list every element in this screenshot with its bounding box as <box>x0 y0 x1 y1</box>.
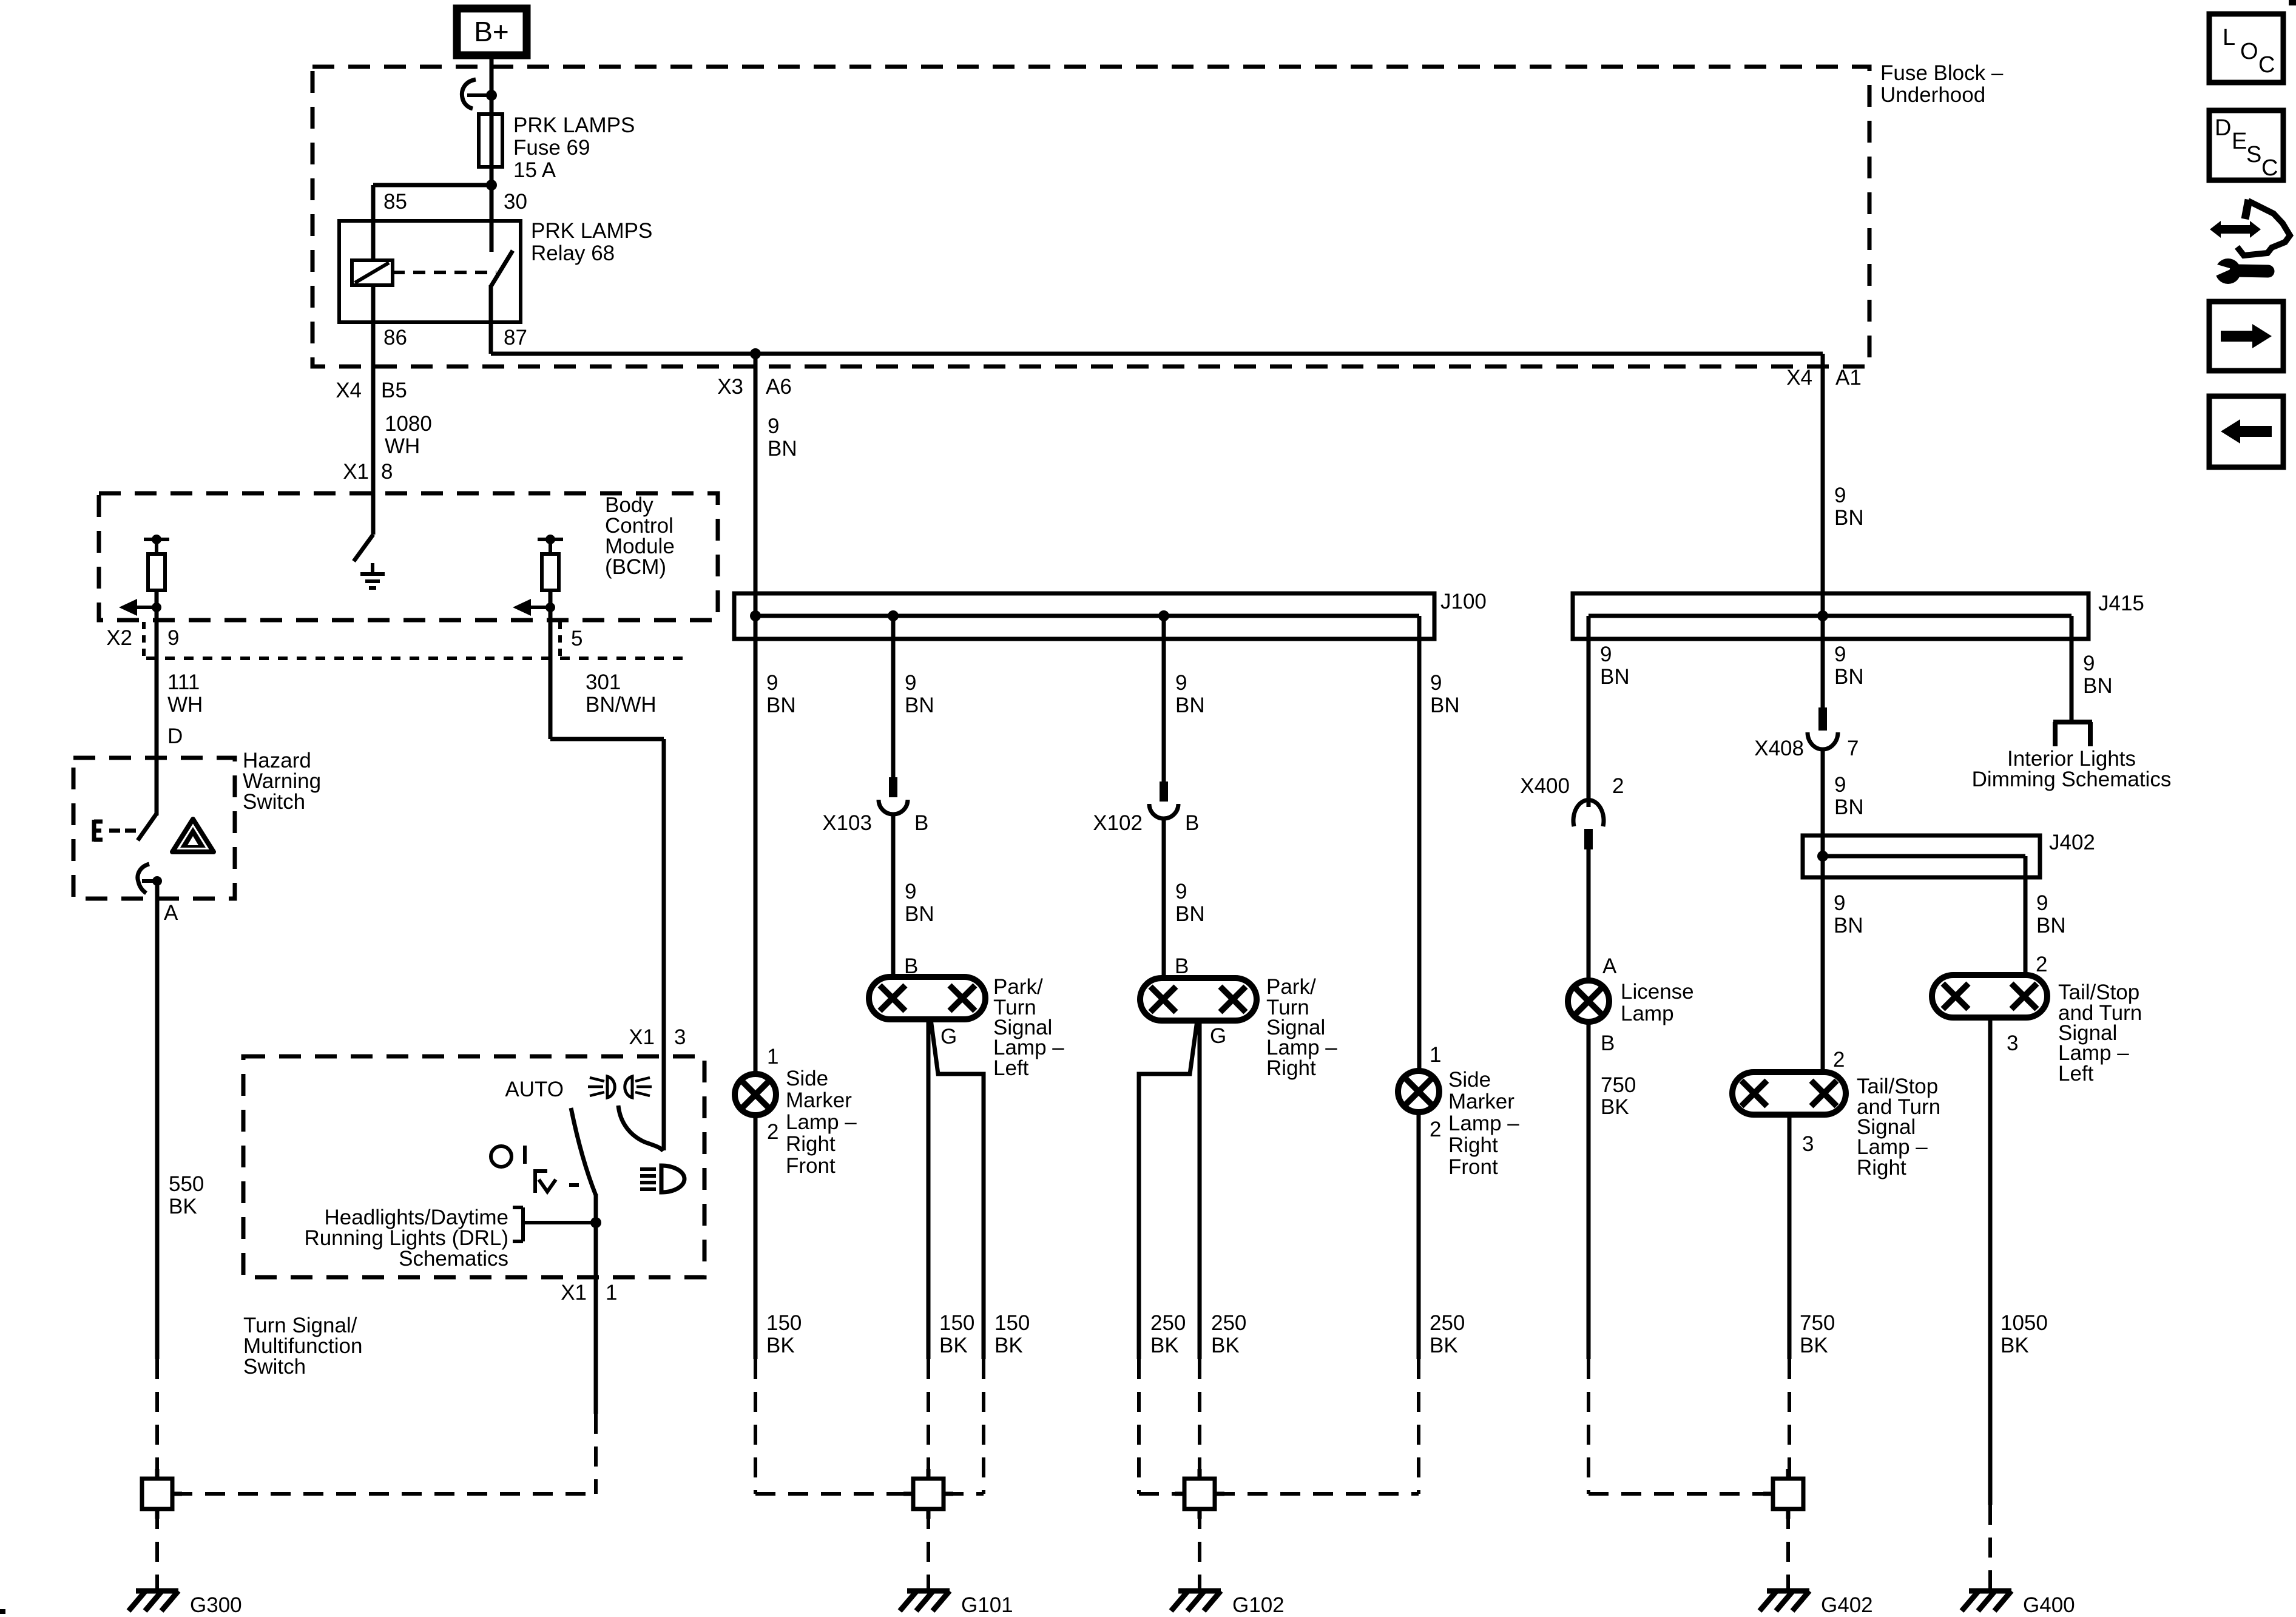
svg-text:G102: G102 <box>1232 1593 1285 1617</box>
svg-text:3: 3 <box>2007 1031 2018 1055</box>
svg-text:G: G <box>1210 1024 1226 1048</box>
svg-text:30: 30 <box>504 190 527 214</box>
svg-text:L: L <box>2223 25 2235 50</box>
svg-text:2: 2 <box>2036 953 2047 976</box>
svg-text:BN: BN <box>766 694 796 717</box>
svg-text:BN: BN <box>905 694 934 717</box>
svg-text:X3: X3 <box>717 375 743 399</box>
svg-text:E: E <box>2232 129 2247 154</box>
svg-text:2: 2 <box>767 1120 778 1144</box>
svg-text:BN: BN <box>1430 694 1460 717</box>
svg-text:Side: Side <box>786 1067 828 1090</box>
svg-text:X408: X408 <box>1754 737 1804 760</box>
svg-text:Dimming Schematics: Dimming Schematics <box>1972 768 2172 791</box>
svg-text:A1: A1 <box>1835 366 1862 390</box>
svg-text:150: 150 <box>994 1311 1030 1335</box>
svg-text:9: 9 <box>2036 891 2048 915</box>
svg-text:WH: WH <box>385 434 420 458</box>
svg-text:9: 9 <box>905 880 916 903</box>
svg-text:BN: BN <box>2036 914 2066 937</box>
svg-text:B: B <box>1185 811 1199 835</box>
svg-text:G400: G400 <box>2023 1593 2075 1617</box>
svg-text:Left: Left <box>993 1056 1029 1080</box>
svg-text:Marker: Marker <box>1448 1090 1514 1113</box>
svg-text:A6: A6 <box>766 375 792 399</box>
svg-text:Schematics: Schematics <box>399 1247 508 1271</box>
svg-text:PRK LAMPS: PRK LAMPS <box>513 113 635 137</box>
svg-text:B: B <box>1175 954 1189 978</box>
svg-text:BN: BN <box>1834 506 1864 530</box>
svg-text:X1: X1 <box>561 1281 587 1305</box>
svg-text:150: 150 <box>766 1311 802 1335</box>
svg-text:X4: X4 <box>1786 366 1812 390</box>
svg-text:BN: BN <box>1175 694 1205 717</box>
svg-text:2: 2 <box>1833 1048 1845 1072</box>
svg-text:BN/WH: BN/WH <box>586 693 657 717</box>
svg-text:9: 9 <box>1834 643 1846 666</box>
svg-text:C: C <box>2261 155 2278 181</box>
svg-text:Switch: Switch <box>243 1355 306 1379</box>
svg-text:D: D <box>167 724 183 748</box>
svg-text:9: 9 <box>2083 652 2095 675</box>
svg-text:9: 9 <box>766 671 778 695</box>
svg-text:1080: 1080 <box>385 412 432 436</box>
svg-text:9: 9 <box>1175 880 1187 903</box>
svg-text:Underhood: Underhood <box>1880 83 1985 107</box>
svg-text:G402: G402 <box>1821 1593 1873 1617</box>
svg-text:1: 1 <box>767 1045 778 1068</box>
svg-text:BN: BN <box>1175 902 1205 926</box>
svg-text:A: A <box>1602 954 1617 978</box>
svg-text:WH: WH <box>167 693 203 717</box>
svg-text:(BCM): (BCM) <box>605 555 666 579</box>
svg-text:BK: BK <box>1150 1334 1179 1357</box>
svg-text:BK: BK <box>939 1334 968 1357</box>
svg-text:G300: G300 <box>190 1593 242 1617</box>
svg-text:750: 750 <box>1800 1311 1835 1335</box>
svg-text:B5: B5 <box>381 379 407 402</box>
svg-text:G101: G101 <box>961 1593 1013 1617</box>
svg-text:8: 8 <box>381 460 393 484</box>
svg-text:X1: X1 <box>343 460 369 484</box>
svg-text:BK: BK <box>2001 1334 2029 1357</box>
svg-text:Right: Right <box>1448 1133 1498 1157</box>
svg-text:Switch: Switch <box>243 790 305 814</box>
svg-text:9: 9 <box>1834 773 1846 797</box>
svg-text:9: 9 <box>1834 891 1845 915</box>
svg-text:B+: B+ <box>474 16 509 47</box>
svg-text:G: G <box>940 1025 957 1048</box>
svg-text:3: 3 <box>1802 1132 1814 1156</box>
svg-text:Relay 68: Relay 68 <box>531 241 615 265</box>
svg-text:BK: BK <box>1601 1095 1629 1119</box>
svg-text:Side: Side <box>1448 1068 1491 1092</box>
svg-text:Front: Front <box>1448 1155 1498 1179</box>
svg-text:2: 2 <box>1612 774 1624 798</box>
svg-text:9: 9 <box>167 626 179 650</box>
svg-text:A: A <box>164 901 178 925</box>
svg-text:X103: X103 <box>822 811 872 835</box>
svg-text:BN: BN <box>1834 914 1863 937</box>
svg-text:7: 7 <box>1847 737 1859 760</box>
svg-text:9: 9 <box>1834 484 1846 507</box>
svg-text:B: B <box>914 811 928 835</box>
svg-text:O: O <box>2240 39 2258 64</box>
svg-text:X1: X1 <box>629 1025 655 1049</box>
svg-text:BN: BN <box>1834 795 1864 819</box>
svg-text:9: 9 <box>768 414 779 438</box>
svg-text:87: 87 <box>504 326 527 349</box>
svg-text:PRK LAMPS: PRK LAMPS <box>531 219 652 243</box>
svg-text:BK: BK <box>1211 1334 1240 1357</box>
svg-text:B: B <box>1601 1031 1615 1055</box>
svg-text:J100: J100 <box>1440 590 1487 613</box>
svg-text:Lamp –: Lamp – <box>786 1110 857 1134</box>
svg-text:Right: Right <box>1857 1156 1906 1180</box>
svg-text:BK: BK <box>1800 1334 1828 1357</box>
svg-text:AUTO: AUTO <box>505 1078 564 1101</box>
svg-text:D: D <box>2215 115 2231 141</box>
svg-text:9: 9 <box>1430 671 1442 695</box>
svg-text:BN: BN <box>905 902 934 926</box>
svg-text:BK: BK <box>994 1334 1023 1357</box>
svg-text:X4: X4 <box>336 379 362 402</box>
svg-text:Front: Front <box>786 1154 836 1178</box>
svg-text:BN: BN <box>1834 665 1864 689</box>
svg-text:X102: X102 <box>1093 811 1143 835</box>
svg-text:9: 9 <box>905 671 916 695</box>
svg-text:BK: BK <box>169 1195 197 1218</box>
svg-text:86: 86 <box>383 326 407 349</box>
svg-text:BN: BN <box>1600 665 1630 689</box>
svg-text:2: 2 <box>1430 1118 1441 1141</box>
svg-text:BN: BN <box>768 437 797 461</box>
svg-text:1: 1 <box>606 1281 617 1305</box>
svg-text:J415: J415 <box>2098 592 2144 615</box>
svg-text:9: 9 <box>1600 643 1612 666</box>
svg-text:S: S <box>2246 142 2261 167</box>
svg-text:250: 250 <box>1211 1311 1246 1335</box>
svg-text:BK: BK <box>766 1334 795 1357</box>
svg-text:J402: J402 <box>2049 831 2095 854</box>
svg-text:15 A: 15 A <box>513 158 556 182</box>
svg-text:1050: 1050 <box>2001 1311 2048 1335</box>
svg-text:250: 250 <box>1430 1311 1465 1335</box>
svg-text:9: 9 <box>1175 671 1187 695</box>
svg-text:Fuse Block –: Fuse Block – <box>1880 61 2004 85</box>
svg-text:License: License <box>1621 980 1694 1004</box>
svg-text:111: 111 <box>167 670 200 694</box>
svg-text:250: 250 <box>1150 1311 1186 1335</box>
svg-text:750: 750 <box>1601 1073 1636 1097</box>
svg-text:BN: BN <box>2083 674 2113 698</box>
svg-text:3: 3 <box>674 1025 686 1049</box>
svg-text:Lamp: Lamp <box>1621 1002 1674 1025</box>
svg-text:X2: X2 <box>106 626 132 650</box>
svg-text:Lamp –: Lamp – <box>1448 1112 1519 1135</box>
svg-text:85: 85 <box>383 190 407 214</box>
svg-text:301: 301 <box>586 670 621 694</box>
svg-text:Right: Right <box>786 1132 836 1156</box>
svg-text:Right: Right <box>1266 1056 1316 1080</box>
svg-text:Marker: Marker <box>786 1089 852 1112</box>
svg-text:Left: Left <box>2058 1062 2094 1085</box>
svg-text:5: 5 <box>571 627 582 650</box>
svg-text:1: 1 <box>1430 1043 1441 1067</box>
svg-text:150: 150 <box>939 1311 974 1335</box>
svg-text:C: C <box>2258 52 2275 78</box>
svg-text:X400: X400 <box>1520 774 1570 798</box>
svg-text:Fuse 69: Fuse 69 <box>513 136 590 160</box>
svg-text:BK: BK <box>1430 1334 1458 1357</box>
svg-text:550: 550 <box>169 1172 204 1196</box>
